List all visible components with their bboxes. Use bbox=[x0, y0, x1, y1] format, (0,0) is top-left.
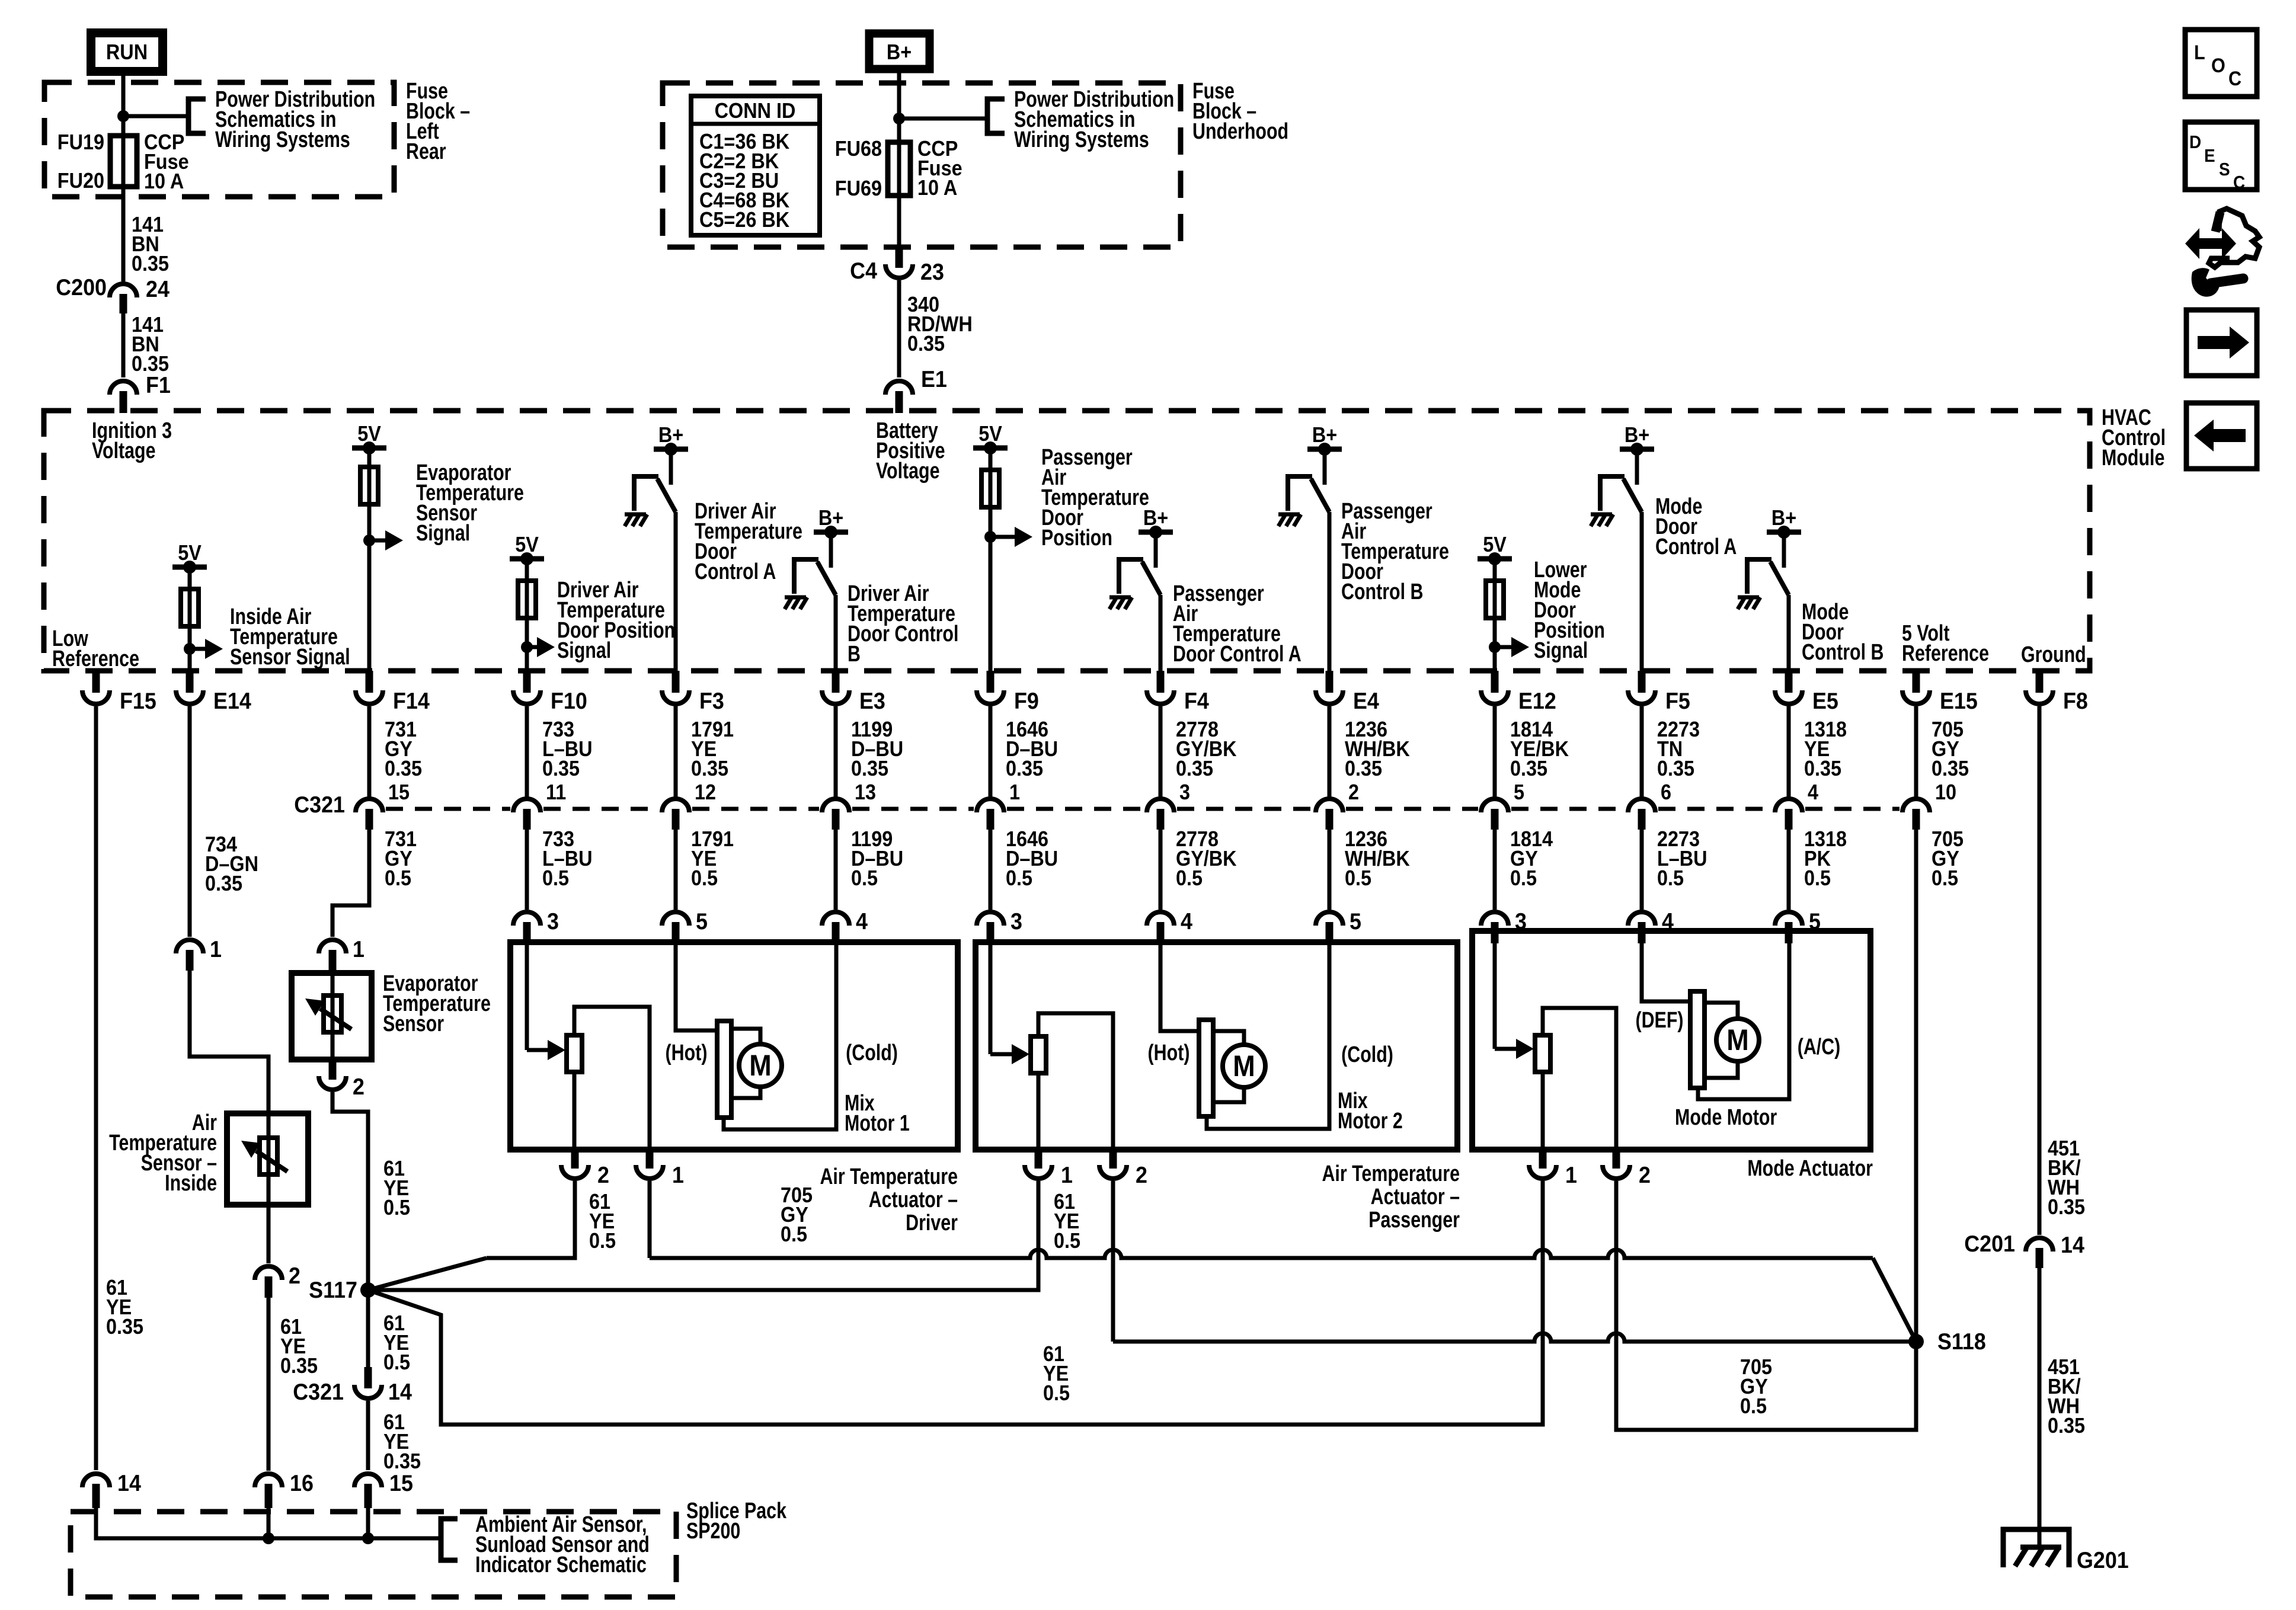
wire pot bottom to pin 1 mode bbox=[1541, 1072, 1545, 1150]
ground G201 bbox=[2003, 1529, 2069, 1567]
wire F14 branch to evaporator sensor (ckt 731) bbox=[332, 830, 369, 937]
svg-text:M: M bbox=[1726, 1024, 1748, 1057]
connector splice pack pin 16 bbox=[255, 1474, 282, 1487]
reference bracket (power distribution underhood) bbox=[987, 99, 1005, 133]
wire C201 to G201 bbox=[2038, 1268, 2042, 1547]
wire evap sensor to S117 (ckt 61) bbox=[332, 1092, 368, 1284]
connector C4 pin 23 bbox=[896, 247, 903, 268]
wire E3 channel bbox=[834, 595, 838, 671]
connector pin 2 evaporator temp sensor bbox=[329, 1060, 337, 1080]
connector splice pack pin 14 bbox=[82, 1474, 110, 1487]
connector splice pack pin 15 bbox=[354, 1474, 382, 1487]
wire from connector x=889 to C321 bbox=[525, 706, 529, 797]
air temperature actuator passenger box bbox=[976, 942, 1457, 1150]
potentiometer passenger actuator bbox=[1031, 1036, 1046, 1073]
svg-text:0.35: 0.35 bbox=[2048, 1195, 2085, 1219]
connector C321 pin 5 bbox=[1481, 799, 1508, 812]
svg-text:0.35: 0.35 bbox=[385, 757, 422, 780]
svg-text:(Cold): (Cold) bbox=[1341, 1042, 1393, 1067]
svg-text:E14: E14 bbox=[213, 688, 251, 714]
wire pot top to pin 2 mode bbox=[1543, 1008, 1616, 1150]
svg-text:Control A: Control A bbox=[695, 559, 776, 584]
svg-text:F3: F3 bbox=[699, 688, 724, 714]
connector E12 at HVAC module bbox=[1491, 671, 1499, 693]
wire from connector x=3233 to C321 bbox=[1914, 706, 1918, 797]
connector E1 into HVAC module bbox=[885, 381, 913, 395]
svg-text:10 A: 10 A bbox=[144, 169, 184, 193]
svg-text:Reference: Reference bbox=[52, 646, 139, 671]
svg-text:0.35: 0.35 bbox=[1657, 757, 1694, 780]
wire from connector x=2770 to C321 bbox=[1640, 706, 1644, 797]
svg-text:1: 1 bbox=[1009, 780, 1020, 804]
reference bracket (power distribution) bbox=[188, 99, 206, 133]
fuse FU68/FU69 CCP Fuse 10A bbox=[888, 142, 910, 196]
wire C321 to actuator pin 5 bbox=[674, 830, 678, 910]
svg-text:Actuator –: Actuator – bbox=[869, 1188, 958, 1212]
dashed box fuse block underhood bbox=[663, 83, 1181, 247]
svg-text:0.35: 0.35 bbox=[1176, 757, 1213, 780]
wire C321 to actuator pin 3 bbox=[525, 830, 529, 910]
dashed box splice pack SP200 bbox=[71, 1512, 676, 1597]
svg-text:Wiring Systems: Wiring Systems bbox=[1014, 127, 1149, 152]
svg-text:F14: F14 bbox=[393, 688, 430, 714]
svg-text:0.5: 0.5 bbox=[851, 866, 878, 890]
potentiometer driver actuator bbox=[567, 1035, 582, 1072]
wire F8 ground down (ckt 451) bbox=[2038, 706, 2042, 1235]
connector F14 at HVAC module bbox=[366, 671, 373, 693]
svg-text:Underhood: Underhood bbox=[1192, 119, 1288, 144]
svg-text:5: 5 bbox=[1514, 780, 1524, 804]
svg-text:Mode Actuator: Mode Actuator bbox=[1747, 1156, 1873, 1181]
wire motor bottom to E4 (cold side) bbox=[1207, 942, 1329, 1129]
wire from connector x=3018 to C321 bbox=[1787, 706, 1791, 797]
wire C321 to actuator pin 4 bbox=[834, 830, 838, 910]
connector C200 pin 24 bbox=[110, 284, 137, 297]
connector C321 pin 12 bbox=[662, 799, 689, 812]
connector F5 at HVAC module bbox=[1638, 671, 1646, 693]
mode actuator box bbox=[1472, 931, 1870, 1150]
actuator connector pin 4 x=2770 bbox=[1628, 912, 1655, 926]
wire F14 channel bbox=[367, 448, 372, 671]
wire from connector x=2522 to C321 bbox=[1493, 706, 1497, 797]
svg-text:0.5: 0.5 bbox=[383, 1196, 410, 1219]
connector E15 at HVAC module bbox=[1913, 671, 1920, 693]
wire F3 inside driver actuator to mix motor 1 bbox=[676, 942, 717, 1030]
svg-text:Reference: Reference bbox=[1902, 641, 1989, 666]
wire C321 to actuator pin 4 bbox=[1640, 830, 1644, 910]
svg-text:2: 2 bbox=[1348, 780, 1359, 804]
svg-text:FU68: FU68 bbox=[835, 137, 882, 161]
svg-text:Signal: Signal bbox=[416, 521, 470, 546]
wire from connector x=1410 to C321 bbox=[834, 706, 838, 797]
wire C321 to actuator pin 5 bbox=[1328, 830, 1332, 910]
connector C321 pin 13 bbox=[822, 799, 849, 812]
wire sensor to connector 2 bbox=[267, 1205, 271, 1263]
svg-text:Door Control A: Door Control A bbox=[1173, 642, 1302, 667]
svg-text:0.5: 0.5 bbox=[691, 866, 718, 890]
connector pin 2 mode actuator bbox=[1613, 1150, 1620, 1169]
svg-text:2: 2 bbox=[1136, 1162, 1147, 1188]
wire C321 to actuator pin 5 bbox=[1787, 830, 1791, 910]
svg-text:12: 12 bbox=[695, 780, 716, 804]
wire 705 GY passenger pin2 to S118 with hops bbox=[1113, 1333, 1916, 1342]
wire C4 to E1 bbox=[897, 280, 901, 377]
svg-text:B: B bbox=[848, 642, 861, 667]
connector E5 at HVAC module bbox=[1785, 671, 1793, 693]
svg-text:0.5: 0.5 bbox=[781, 1222, 807, 1246]
junction on splice bus bbox=[263, 1532, 274, 1544]
svg-text:0.5: 0.5 bbox=[1345, 866, 1371, 890]
wire motor to M circle top bbox=[731, 1029, 760, 1044]
svg-text:2: 2 bbox=[1639, 1162, 1651, 1188]
svg-text:RUN: RUN bbox=[106, 40, 148, 64]
svg-text:L: L bbox=[2194, 41, 2205, 64]
wire B+ to C4 (ckt 340) bbox=[897, 71, 901, 249]
svg-text:SP200: SP200 bbox=[686, 1519, 740, 1544]
svg-text:2: 2 bbox=[597, 1162, 609, 1188]
connector F10 at HVAC module bbox=[523, 671, 531, 693]
svg-text:0.5: 0.5 bbox=[542, 866, 569, 890]
splice S117 bbox=[360, 1282, 376, 1298]
wire E14 to connector 1 (ckt 734) bbox=[188, 706, 192, 937]
wire passenger pin2 down (ckt 705) bbox=[1111, 1181, 1115, 1342]
svg-text:Inside: Inside bbox=[165, 1171, 217, 1196]
svg-text:D: D bbox=[2189, 132, 2201, 153]
svg-text:0.5: 0.5 bbox=[1657, 866, 1684, 890]
svg-text:F9: F9 bbox=[1014, 688, 1039, 714]
svg-text:0.5: 0.5 bbox=[589, 1229, 616, 1253]
connector C321 pin 15 bbox=[356, 799, 383, 812]
svg-text:15: 15 bbox=[388, 780, 410, 804]
wire M circle bottom to motor bbox=[731, 1087, 760, 1098]
svg-text:(Hot): (Hot) bbox=[666, 1041, 708, 1065]
svg-text:1: 1 bbox=[1565, 1162, 1577, 1188]
wire to reference bracket underhood bbox=[899, 117, 986, 121]
wire RUN to C200 (ckt 141) bbox=[121, 76, 126, 281]
power mode box B+ bbox=[869, 34, 930, 69]
wire F9 channel bbox=[989, 448, 993, 671]
svg-text:E: E bbox=[2204, 146, 2215, 167]
svg-text:Motor 2: Motor 2 bbox=[1338, 1109, 1403, 1134]
svg-text:(Hot): (Hot) bbox=[1148, 1041, 1190, 1065]
svg-text:G201: G201 bbox=[2077, 1547, 2129, 1573]
svg-text:E3: E3 bbox=[859, 688, 885, 714]
svg-text:0.35: 0.35 bbox=[280, 1354, 318, 1378]
CONN ID table bbox=[691, 96, 820, 235]
actuator connector pin 4 x=1958 bbox=[1147, 912, 1174, 926]
connector E3 at HVAC module bbox=[832, 671, 840, 693]
svg-text:M: M bbox=[1233, 1050, 1255, 1083]
wrench icon bbox=[2192, 268, 2220, 297]
svg-text:Signal: Signal bbox=[557, 638, 611, 663]
wire S117 to passenger pin1 (ckt 61) bbox=[368, 1181, 1038, 1290]
svg-text:E5: E5 bbox=[1812, 688, 1838, 714]
svg-text:C: C bbox=[2233, 172, 2245, 193]
svg-text:(A/C): (A/C) bbox=[1798, 1035, 1841, 1060]
svg-text:Indicator Schematic: Indicator Schematic bbox=[475, 1553, 647, 1577]
wire E12 inside mode actuator bbox=[1493, 931, 1497, 1049]
mix motor 1 winding bbox=[717, 1021, 731, 1118]
svg-text:CONN ID: CONN ID bbox=[715, 99, 796, 123]
svg-text:0.5: 0.5 bbox=[1510, 866, 1537, 890]
svg-text:14: 14 bbox=[388, 1379, 412, 1405]
svg-text:15: 15 bbox=[389, 1470, 413, 1496]
splice pack bus wire bbox=[96, 1508, 440, 1538]
wire to reference bracket bbox=[123, 114, 187, 119]
svg-text:0.5: 0.5 bbox=[1932, 866, 1958, 890]
connector pin 2 air temp sensor inside bbox=[255, 1266, 282, 1280]
svg-text:0.35: 0.35 bbox=[106, 1315, 143, 1339]
wire F15 low reference down (ckt 61) bbox=[94, 706, 98, 1470]
svg-text:Rear: Rear bbox=[406, 139, 446, 164]
svg-text:10 A: 10 A bbox=[917, 176, 957, 200]
svg-text:C201: C201 bbox=[1964, 1231, 2015, 1257]
connector pin 1 evaporator temp sensor bbox=[319, 940, 346, 953]
svg-text:Motor 1: Motor 1 bbox=[845, 1111, 910, 1136]
svg-text:Control B: Control B bbox=[1341, 580, 1423, 604]
connector F4 at HVAC module bbox=[1157, 671, 1165, 693]
svg-text:0.5: 0.5 bbox=[1006, 866, 1032, 890]
svg-text:Driver: Driver bbox=[906, 1211, 958, 1235]
svg-text:Wiring Systems: Wiring Systems bbox=[215, 127, 350, 152]
svg-text:Signal: Signal bbox=[1534, 638, 1588, 663]
junction node fuse block left rear bbox=[117, 110, 129, 122]
air temperature sensor - inside bbox=[227, 1113, 308, 1205]
junction on splice bus 2 bbox=[362, 1532, 374, 1544]
svg-text:E12: E12 bbox=[1518, 688, 1556, 714]
svg-text:23: 23 bbox=[920, 259, 944, 285]
svg-text:(Cold): (Cold) bbox=[846, 1041, 898, 1065]
wire from connector x=2243 to C321 bbox=[1328, 706, 1332, 797]
wire from connector x=1671 to C321 bbox=[989, 706, 993, 797]
svg-text:Module: Module bbox=[2102, 446, 2164, 470]
wire driver pin2 to S117 (ckt 61) bbox=[487, 1181, 575, 1258]
svg-text:Air Temperature: Air Temperature bbox=[820, 1164, 958, 1189]
svg-text:0.5: 0.5 bbox=[383, 1350, 410, 1374]
mix motor 2 winding bbox=[1199, 1020, 1213, 1116]
svg-text:Passenger: Passenger bbox=[1368, 1208, 1460, 1233]
wire F5 inside mode actuator to mode motor bbox=[1642, 931, 1690, 1001]
connector pin 2 driver actuator bbox=[571, 1150, 579, 1169]
power mode box RUN bbox=[91, 33, 163, 72]
reference bracket ambient air sensor bbox=[441, 1519, 458, 1560]
svg-text:0.35: 0.35 bbox=[1804, 757, 1841, 780]
svg-text:16: 16 bbox=[290, 1470, 314, 1496]
svg-text:F15: F15 bbox=[120, 688, 156, 714]
svg-text:M: M bbox=[749, 1049, 771, 1083]
wire E5 channel bbox=[1787, 595, 1791, 671]
svg-text:4: 4 bbox=[1808, 780, 1818, 804]
wire C321 to actuator pin 4 bbox=[1159, 830, 1163, 910]
connector C321 pin 11 bbox=[513, 799, 541, 812]
svg-text:S118: S118 bbox=[1937, 1329, 1986, 1355]
svg-text:Actuator –: Actuator – bbox=[1371, 1185, 1460, 1209]
actuator connector pin 3 x=889 bbox=[513, 912, 541, 926]
actuator connector pin 3 x=2522 bbox=[1481, 912, 1508, 926]
wire ckt 61 to splice pack pin 16 bbox=[267, 1298, 271, 1471]
wire C321 to actuator pin 3 bbox=[989, 830, 993, 910]
wire pin 16 to bus bbox=[267, 1508, 271, 1538]
dashed connector line C321 bbox=[386, 807, 510, 811]
wire S117 down to C321 pin 14 bbox=[366, 1284, 370, 1369]
diagonal wire into S118 bbox=[1873, 1258, 1916, 1342]
wire pot bottom to pin 2 driver bbox=[573, 1072, 577, 1150]
svg-text:10: 10 bbox=[1935, 780, 1956, 804]
dashed box HVAC control module bbox=[44, 411, 2090, 671]
svg-text:0.5: 0.5 bbox=[1176, 866, 1203, 890]
svg-text:Ground: Ground bbox=[2021, 642, 2086, 667]
svg-text:6: 6 bbox=[1661, 780, 1671, 804]
wire pot top to pin 1 driver bbox=[574, 1007, 650, 1150]
splice S118 bbox=[1908, 1334, 1924, 1349]
wire E12 channel bbox=[1493, 559, 1497, 671]
connector C321 pin 6 bbox=[1628, 799, 1655, 812]
motor M symbol mix motor 1 bbox=[739, 1044, 782, 1087]
svg-text:Control B: Control B bbox=[1802, 640, 1884, 665]
svg-text:E15: E15 bbox=[1940, 688, 1978, 714]
svg-text:0.35: 0.35 bbox=[851, 757, 888, 780]
motor M symbol mix motor 2 bbox=[1223, 1045, 1265, 1087]
actuator connector pin 4 x=1410 bbox=[822, 912, 849, 926]
svg-text:0.5: 0.5 bbox=[1740, 1394, 1767, 1418]
icon vehicle data with wrench bbox=[2185, 228, 2236, 259]
svg-text:S117: S117 bbox=[309, 1277, 357, 1303]
wiper arrow mode actuator bbox=[1495, 1047, 1518, 1051]
svg-text:0.35: 0.35 bbox=[542, 757, 580, 780]
junction node fuse block underhood bbox=[893, 113, 905, 124]
svg-text:F10: F10 bbox=[551, 688, 587, 714]
svg-text:Voltage: Voltage bbox=[92, 438, 156, 463]
connector pin 1 mode actuator bbox=[1539, 1150, 1547, 1169]
svg-text:FU20: FU20 bbox=[57, 169, 104, 193]
svg-text:Door Control: Door Control bbox=[848, 622, 958, 646]
wire F4 channel bbox=[1159, 595, 1163, 671]
wire pot top to pin 2 passenger bbox=[1038, 1013, 1113, 1150]
svg-text:C5=26 BK: C5=26 BK bbox=[699, 208, 789, 232]
svg-text:1: 1 bbox=[353, 936, 364, 962]
icon box arrow right bbox=[2186, 310, 2257, 376]
svg-text:Mode Motor: Mode Motor bbox=[1675, 1105, 1777, 1130]
connector F1 into HVAC module bbox=[110, 381, 137, 395]
svg-text:14: 14 bbox=[117, 1470, 141, 1496]
wire pin 15 to bus bbox=[366, 1508, 370, 1538]
icon box arrow left bbox=[2186, 403, 2257, 469]
wire motor bottom to E5 (A/C side) bbox=[1698, 931, 1789, 1099]
svg-text:2: 2 bbox=[353, 1074, 364, 1100]
svg-text:3: 3 bbox=[1011, 908, 1022, 934]
svg-text:C4: C4 bbox=[850, 258, 877, 284]
air temperature actuator driver box bbox=[510, 942, 958, 1150]
svg-text:0.35: 0.35 bbox=[2048, 1414, 2085, 1438]
motor M symbol mode motor bbox=[1716, 1019, 1759, 1061]
dashed box fuse block left rear bbox=[44, 82, 394, 197]
wire mode pin2 to S118 (ckt 705) bbox=[1616, 1181, 1916, 1430]
svg-text:F4: F4 bbox=[1184, 688, 1209, 714]
svg-text:0.35: 0.35 bbox=[907, 332, 945, 356]
svg-text:0.35: 0.35 bbox=[205, 872, 242, 895]
fuse FU19/FU20 CCP Fuse 10A bbox=[110, 136, 137, 187]
actuator connector pin 5 x=2243 bbox=[1316, 912, 1343, 926]
wire F10 channel bbox=[525, 559, 529, 671]
svg-text:0.35: 0.35 bbox=[1932, 757, 1969, 780]
icon box LOC bbox=[2185, 30, 2257, 97]
svg-text:O: O bbox=[2211, 55, 2225, 77]
connector pin 2 passenger actuator bbox=[1109, 1150, 1117, 1169]
svg-text:5: 5 bbox=[696, 908, 708, 934]
svg-text:F1: F1 bbox=[146, 372, 171, 398]
svg-text:4: 4 bbox=[856, 908, 868, 934]
svg-text:Sensor: Sensor bbox=[383, 1012, 444, 1036]
svg-text:1: 1 bbox=[1061, 1162, 1073, 1188]
wire S117 to mode pin1 (ckt 61) bbox=[368, 1181, 1543, 1425]
svg-text:E4: E4 bbox=[1353, 688, 1379, 714]
svg-text:1: 1 bbox=[672, 1162, 684, 1188]
connector C321 pin 14 bbox=[364, 1367, 372, 1388]
svg-text:C321: C321 bbox=[294, 792, 345, 818]
wire pot bottom to pin 1 passenger bbox=[1037, 1073, 1041, 1150]
connector pin 1 passenger actuator bbox=[1035, 1150, 1043, 1169]
svg-text:E1: E1 bbox=[921, 366, 947, 392]
svg-text:0.35: 0.35 bbox=[1006, 757, 1043, 780]
svg-text:3: 3 bbox=[1179, 780, 1190, 804]
wire motor to M circle top passenger bbox=[1213, 1031, 1244, 1045]
connector pin 1 inside air temp sensor bbox=[176, 940, 203, 953]
connector C321 pin 10 bbox=[1902, 799, 1930, 812]
svg-text:C: C bbox=[2228, 68, 2241, 90]
svg-text:0.35: 0.35 bbox=[691, 757, 728, 780]
connector F3 at HVAC module bbox=[672, 671, 680, 693]
svg-text:1: 1 bbox=[210, 936, 222, 962]
connector C321 pin 1 bbox=[977, 799, 1004, 812]
svg-text:0.5: 0.5 bbox=[1043, 1381, 1070, 1405]
connector C201 pin 14 bbox=[2026, 1238, 2053, 1251]
connector E14 at HVAC module bbox=[186, 671, 194, 693]
wire M circle bottom to motor mode bbox=[1705, 1061, 1738, 1078]
wire 705 GY driver pin1 to S118 with hops bbox=[650, 1250, 1873, 1258]
svg-text:Voltage: Voltage bbox=[876, 459, 940, 484]
wire F4 inside passenger actuator to mix motor 2 bbox=[1160, 942, 1199, 1031]
wire E4 channel bbox=[1328, 512, 1332, 671]
wiper arrow passenger actuator bbox=[990, 1052, 1014, 1057]
svg-text:C200: C200 bbox=[56, 274, 107, 300]
svg-text:B+: B+ bbox=[887, 40, 912, 64]
actuator connector pin 5 x=3018 bbox=[1775, 912, 1802, 926]
svg-text:11: 11 bbox=[546, 780, 566, 804]
wire E14 channel bbox=[188, 567, 192, 671]
svg-text:5: 5 bbox=[1350, 908, 1361, 934]
svg-text:13: 13 bbox=[855, 780, 876, 804]
wire motor bottom to E3 (cold side) bbox=[724, 942, 836, 1129]
svg-text:0.35: 0.35 bbox=[132, 252, 169, 276]
wire F9 inside passenger actuator bbox=[989, 942, 993, 1054]
actuator connector pin 3 x=1671 bbox=[977, 912, 1004, 926]
wire E15 5V reference to S118 (ckt 705) bbox=[1914, 830, 1918, 1342]
icon box DESC bbox=[2185, 122, 2257, 190]
wire motor to M circle top mode bbox=[1705, 1003, 1738, 1019]
connector F15 at HVAC module bbox=[92, 671, 100, 693]
wire from connector x=1140 to C321 bbox=[674, 706, 678, 797]
connector C321 pin 2 bbox=[1316, 799, 1343, 812]
svg-text:2: 2 bbox=[289, 1263, 300, 1289]
svg-text:FU19: FU19 bbox=[57, 130, 104, 154]
svg-text:0.35: 0.35 bbox=[1345, 757, 1382, 780]
mode motor winding bbox=[1690, 991, 1705, 1088]
svg-text:Position: Position bbox=[1041, 526, 1112, 550]
svg-text:F8: F8 bbox=[2063, 688, 2088, 714]
wire C321 to actuator pin 3 bbox=[1493, 830, 1497, 910]
wire F10 inside driver actuator bbox=[525, 942, 529, 1050]
svg-text:0.5: 0.5 bbox=[1804, 866, 1831, 890]
